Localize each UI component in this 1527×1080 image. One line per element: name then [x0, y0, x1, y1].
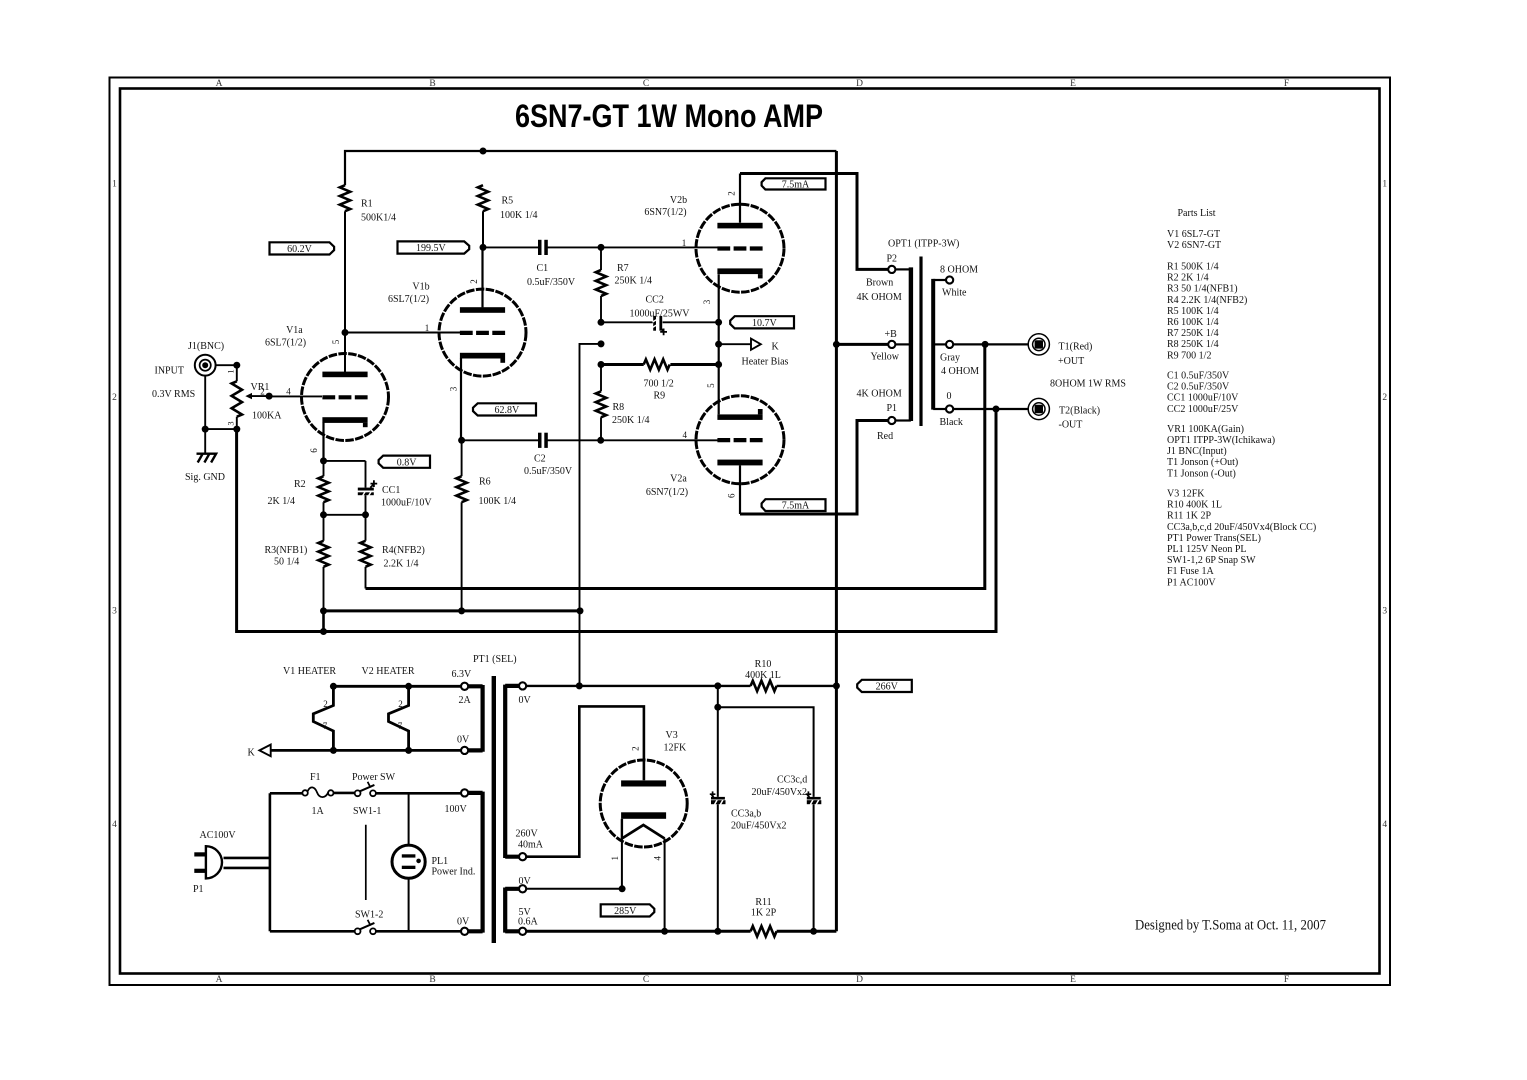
wire V1b plate lead: [481, 247, 483, 307]
potentiometer VR1: [232, 381, 252, 416]
svg-text:V1a: V1a: [286, 325, 303, 336]
wire CC3ab top lead: [717, 686, 719, 797]
svg-text:8 OHOM: 8 OHOM: [940, 264, 978, 275]
svg-text:1000uF/25WV: 1000uF/25WV: [630, 309, 691, 320]
svg-text:R10 400K 1L: R10 400K 1L: [1167, 500, 1222, 511]
svg-text:R2: R2: [294, 479, 306, 490]
tube V1a 6SL7 triode: [302, 354, 389, 441]
svg-text:R1: R1: [361, 199, 373, 210]
wire PL1 bottom lead: [408, 878, 410, 931]
svg-text:PT1 (SEL): PT1 (SEL): [473, 654, 517, 665]
node CC2 left: [598, 319, 605, 326]
wire heater top rail: [333, 685, 461, 688]
node V3 pin4 rail: [661, 928, 668, 935]
svg-text:PL1: PL1: [432, 856, 449, 867]
capacitor CC3a,b block: [710, 791, 726, 804]
svg-text:OPT1 (ITPP-3W): OPT1 (ITPP-3W): [888, 238, 959, 249]
svg-text:20uF/450Vx2: 20uF/450Vx2: [731, 821, 787, 832]
node CC3cd bottom: [810, 928, 817, 935]
svg-text:V2a: V2a: [670, 474, 687, 485]
svg-text:B: B: [429, 79, 435, 89]
node CC3ab top: [714, 682, 721, 689]
terminal 4 OHOM gray: [946, 341, 953, 348]
svg-text:199.5V: 199.5V: [416, 243, 447, 254]
svg-text:R8 250K 1/4: R8 250K 1/4: [1167, 339, 1219, 350]
svg-text:266V: 266V: [876, 682, 899, 693]
node heater V2 top: [405, 683, 412, 690]
wire black tap to T2: [953, 408, 1028, 410]
parts list: [1167, 208, 1316, 588]
wire V3 pin1 lead: [621, 839, 623, 889]
heater V2 filament: [389, 686, 409, 750]
node R7 top: [598, 244, 605, 251]
flag 62.8V: [473, 403, 536, 416]
tube V2a 6SN7 triode: [696, 396, 784, 484]
svg-text:R10: R10: [755, 659, 772, 670]
wire R3 top lead: [323, 515, 325, 541]
svg-text:CC3c,d: CC3c,d: [777, 774, 807, 785]
connector T2 output jack: [1028, 398, 1049, 419]
svg-text:J1(BNC): J1(BNC): [188, 341, 224, 352]
svg-text:1: 1: [1382, 180, 1387, 190]
wire plug cord upper: [224, 857, 270, 860]
node T1 branch: [982, 341, 989, 348]
wire BNC gnd to VR1 bottom: [205, 428, 237, 430]
node CC1 bottom: [362, 511, 369, 518]
svg-text:3: 3: [449, 386, 459, 391]
svg-text:0V: 0V: [457, 735, 470, 746]
node heater V1 top: [330, 683, 337, 690]
svg-text:6.3V: 6.3V: [452, 669, 473, 680]
svg-text:Red: Red: [877, 431, 893, 442]
wire V1a grid lead: [269, 395, 322, 397]
terminal rect 0V: [519, 885, 526, 892]
tube V3 12FK rectifier: [600, 760, 687, 847]
wire R9 right lead: [670, 363, 718, 366]
wire SW1-2 to 0V: [376, 930, 461, 933]
svg-text:0V: 0V: [457, 916, 470, 927]
node R3 upper bus: [320, 607, 327, 614]
svg-text:12FK: 12FK: [664, 743, 688, 754]
svg-text:260V: 260V: [516, 829, 539, 840]
node V2b cathode CC2: [715, 319, 722, 326]
terminal 6.3V: [461, 683, 468, 690]
svg-text:2: 2: [398, 699, 403, 709]
wire CC2 line right: [663, 321, 719, 323]
svg-text:500K1/4: 500K1/4: [361, 213, 396, 224]
svg-text:100KA: 100KA: [252, 411, 282, 422]
svg-text:250K 1/4: 250K 1/4: [615, 276, 653, 287]
svg-text:K: K: [772, 342, 780, 353]
node K arrow: [715, 341, 722, 348]
wire V2a grid lead: [601, 439, 718, 441]
wire K arrow stub: [719, 343, 751, 345]
svg-text:Gray: Gray: [940, 353, 960, 364]
flag 7.5mA bottom: [762, 499, 826, 512]
wire R3 node drop: [322, 611, 325, 632]
svg-text:60.2V: 60.2V: [287, 244, 313, 255]
svg-text:7.5mA: 7.5mA: [782, 501, 810, 512]
wire 0V rail right of R10: [777, 685, 837, 687]
connector K arrow heater return: [259, 745, 270, 757]
node 266V rail: [833, 682, 840, 689]
node input: [233, 362, 240, 369]
transformer OPT1 core: [919, 257, 922, 427]
svg-text:C1 0.5uF/350V: C1 0.5uF/350V: [1167, 371, 1230, 382]
ground Sig. GND: [197, 454, 217, 463]
svg-text:1A: 1A: [312, 806, 325, 817]
svg-text:Brown: Brown: [866, 277, 893, 288]
svg-text:V1 6SL7-GT: V1 6SL7-GT: [1167, 229, 1220, 240]
svg-text:E: E: [1070, 975, 1076, 985]
svg-text:Power Ind.: Power Ind.: [432, 866, 476, 877]
wire V2b anode lead: [739, 174, 741, 223]
transformer PT1 heater winding: [468, 685, 482, 752]
wire R3 bottom lead: [323, 567, 325, 611]
wire OPT1 0ohm stub: [933, 408, 946, 410]
wire R4 bottom lead: [365, 567, 367, 589]
wire rect 0V to V3 pin1: [526, 888, 622, 890]
svg-text:INPUT: INPUT: [155, 365, 184, 376]
svg-text:K: K: [248, 748, 256, 759]
wire R6 bottom lead: [461, 502, 463, 611]
svg-text:V3: V3: [666, 730, 678, 741]
node C2 right: [597, 437, 604, 444]
svg-text:20uF/450Vx2: 20uF/450Vx2: [752, 787, 808, 798]
wire PL1 top lead: [408, 793, 410, 845]
svg-text:Designed by T.Soma at Oct. 11,: Designed by T.Soma at Oct. 11, 2007: [1135, 918, 1326, 934]
wire CC3cd bottom lead: [813, 804, 815, 931]
node R2 bottom: [320, 511, 327, 518]
svg-text:A: A: [216, 79, 223, 89]
svg-text:1: 1: [682, 238, 687, 248]
node R5 top: [480, 148, 487, 155]
lamp PL1 neon: [392, 845, 425, 878]
svg-text:R5 100K 1/4: R5 100K 1/4: [1167, 306, 1219, 317]
wire OPT1 4ohm stub: [933, 343, 946, 345]
heater V1 filament: [313, 686, 333, 750]
connector J1 BNC input jack: [195, 355, 216, 376]
svg-text:R11 1K 2P: R11 1K 2P: [1167, 511, 1212, 522]
svg-text:100K 1/4: 100K 1/4: [479, 496, 517, 507]
svg-text:1: 1: [425, 323, 430, 333]
wire bottom rail left of R11: [526, 930, 750, 933]
node CC3ab bottom: [714, 928, 721, 935]
svg-text:0V: 0V: [519, 876, 532, 887]
wire R6 top lead: [461, 440, 463, 476]
terminal 8 OHOM: [946, 276, 953, 283]
svg-text:Sig. GND: Sig. GND: [185, 472, 225, 483]
capacitor CC1 1000uF electrolytic: [358, 480, 377, 495]
wire 260V to V3 anode: [526, 706, 644, 856]
svg-text:R6: R6: [479, 477, 491, 488]
transformer PT1 core: [492, 676, 496, 943]
svg-text:6: 6: [309, 448, 319, 453]
svg-text:7: 7: [323, 721, 328, 731]
wire OPT1 8ohm stub: [933, 279, 946, 281]
svg-text:R6 100K 1/4: R6 100K 1/4: [1167, 317, 1219, 328]
connector K arrow heater bias: [751, 339, 761, 350]
wire V2a cathode to OPT1 P1: [740, 421, 888, 515]
svg-text:C: C: [643, 79, 649, 89]
svg-text:C2 0.5uF/350V: C2 0.5uF/350V: [1167, 382, 1230, 393]
node heater V2 bottom: [405, 747, 412, 754]
wire R8 top lead: [600, 365, 602, 392]
svg-text:P2: P2: [887, 253, 898, 264]
resistor R8 250K: [596, 391, 606, 417]
svg-text:PL1 125V Neon PL: PL1 125V Neon PL: [1167, 544, 1247, 555]
terminal +B: [888, 341, 895, 348]
svg-text:V2b: V2b: [670, 195, 687, 206]
svg-text:F1: F1: [310, 772, 321, 783]
svg-text:CC3a,b,c,d 20uF/450Vx4(Block C: CC3a,b,c,d 20uF/450Vx4(Block CC): [1167, 522, 1316, 533]
wire R7 top lead: [600, 247, 602, 270]
svg-text:CC1: CC1: [382, 485, 400, 496]
svg-text:6SL7(1/2): 6SL7(1/2): [265, 337, 306, 348]
node VR1 bottom: [233, 426, 240, 433]
node V1a cathode: [320, 457, 327, 464]
wire CC1 to R2 bottom: [324, 514, 366, 516]
svg-text:2K 1/4: 2K 1/4: [268, 496, 296, 507]
capacitor CC2 1000uF electrolytic: [653, 316, 667, 335]
svg-text:4 OHOM: 4 OHOM: [941, 366, 979, 377]
svg-text:R2 2K 1/4: R2 2K 1/4: [1167, 273, 1209, 284]
svg-text:6SN7-GT 1W Mono AMP: 6SN7-GT 1W Mono AMP: [515, 98, 823, 134]
wire C2 line left: [462, 439, 539, 441]
svg-text:D: D: [856, 79, 863, 89]
svg-text:6SN7(1/2): 6SN7(1/2): [644, 207, 686, 218]
svg-text:F: F: [1284, 975, 1289, 985]
wire VR1 bottom lead: [236, 417, 238, 429]
terminal heater 0V: [461, 747, 468, 754]
wire B+ top rail: [345, 151, 836, 185]
svg-text:C1: C1: [537, 263, 549, 274]
svg-text:R9: R9: [654, 391, 666, 402]
wire B+ vertical drop: [835, 151, 838, 931]
wire upper ground bus: [324, 609, 581, 612]
wire 0V rail left of R10: [526, 685, 750, 687]
node V1a anode: [342, 329, 349, 336]
svg-text:E: E: [1070, 79, 1076, 89]
wire V1a anode to V1b grid: [345, 332, 460, 334]
resistor R4 NFB2 2.2K: [360, 541, 370, 567]
svg-text:40mA: 40mA: [518, 840, 544, 851]
node 0V rail K: [576, 682, 583, 689]
svg-text:0.8V: 0.8V: [397, 457, 418, 468]
svg-text:R3 50 1/4(NFB1): R3 50 1/4(NFB1): [1167, 284, 1238, 295]
wire CC1 bottom lead: [365, 495, 367, 515]
svg-text:R1 500K 1/4: R1 500K 1/4: [1167, 262, 1219, 273]
node CC3 link: [714, 704, 721, 711]
wire output return bus: [237, 409, 996, 632]
wire R1 bottom to V1a anode: [344, 211, 346, 373]
svg-text:F: F: [1284, 79, 1289, 89]
wire R8 bottom lead: [600, 417, 602, 440]
svg-text:400K 1L: 400K 1L: [745, 670, 781, 681]
terminal 0 black: [946, 405, 953, 412]
capacitor C2 0.5uF: [538, 433, 542, 448]
svg-text:R8: R8: [613, 402, 625, 413]
transformer OPT1 primary winding: [909, 267, 913, 421]
svg-text:4: 4: [683, 430, 688, 440]
tube V1b 6SL7 triode: [439, 289, 526, 376]
svg-text:4K OHOM: 4K OHOM: [857, 388, 902, 399]
svg-text:700 1/2: 700 1/2: [644, 379, 674, 390]
wire NFB feedback line: [366, 344, 985, 588]
wire OPT1 P1 stub: [895, 419, 911, 421]
svg-text:0V: 0V: [519, 695, 532, 706]
svg-text:SW1-1,2 6P Snap SW: SW1-1,2 6P Snap SW: [1167, 555, 1256, 566]
capacitor CC3c,d block: [806, 791, 822, 804]
resistor R6 100K: [456, 476, 466, 502]
svg-text:10.7V: 10.7V: [752, 318, 778, 329]
svg-text:Power SW: Power SW: [352, 772, 396, 783]
wire OPT1 +B stub: [895, 343, 911, 345]
svg-text:R7 250K 1/4: R7 250K 1/4: [1167, 328, 1219, 339]
resistor R2 2K: [318, 476, 328, 502]
wire AC left vertical: [269, 793, 272, 931]
resistor R10 400K: [751, 681, 777, 691]
resistor R9 700: [644, 359, 670, 369]
wire plug cord lower: [224, 867, 270, 870]
wire C2 line right: [547, 439, 600, 441]
node R9 right: [715, 361, 722, 368]
node C2 left: [458, 437, 465, 444]
svg-text:6SN7(1/2): 6SN7(1/2): [646, 487, 688, 498]
svg-text:+OUT: +OUT: [1058, 356, 1084, 367]
svg-text:0.5uF/350V: 0.5uF/350V: [524, 466, 573, 477]
node lower bus: [320, 628, 327, 635]
resistor R1 500K: [340, 185, 350, 211]
tube V2b 6SN7 triode: [696, 204, 784, 292]
plug P1 AC100V: [194, 846, 222, 878]
wire V2b anode to OPT1 P2: [740, 174, 888, 270]
svg-text:Yellow: Yellow: [871, 351, 900, 362]
terminal 5V: [519, 928, 526, 935]
resistor R7 250K: [596, 270, 606, 296]
connector T1 output jack: [1028, 334, 1049, 355]
wire bottom rail right of R11: [777, 930, 837, 933]
node V3 pin1 0V: [619, 885, 626, 892]
svg-text:V2 6SN7-GT: V2 6SN7-GT: [1167, 240, 1221, 251]
svg-text:0.3V RMS: 0.3V RMS: [152, 389, 195, 400]
svg-text:3: 3: [226, 421, 236, 425]
svg-text:4K OHOM: 4K OHOM: [857, 292, 902, 303]
switch SW1-2: [355, 920, 376, 934]
svg-text:1000uF/10V: 1000uF/10V: [381, 498, 432, 509]
svg-text:1: 1: [112, 180, 117, 190]
svg-text:-OUT: -OUT: [1059, 420, 1083, 431]
wire CC3ab bottom lead: [717, 804, 719, 931]
flag 7.5mA top: [762, 178, 826, 190]
svg-text:50 1/4: 50 1/4: [274, 557, 299, 568]
svg-text:1K 2P: 1K 2P: [751, 908, 777, 919]
svg-text:V3 12FK: V3 12FK: [1167, 489, 1205, 500]
transformer PT1 primary winding: [468, 792, 482, 933]
svg-text:T1 Jonson (-Out): T1 Jonson (-Out): [1167, 468, 1236, 479]
svg-text:4: 4: [653, 855, 663, 860]
svg-text:CC1 1000uF/10V: CC1 1000uF/10V: [1167, 393, 1239, 404]
svg-text:T1 Jonson (+Out): T1 Jonson (+Out): [1167, 457, 1238, 468]
wire V2a cathode lead: [739, 465, 741, 514]
flag 199.5V: [398, 241, 470, 254]
node R9 left: [598, 361, 605, 368]
svg-text:R7: R7: [617, 263, 629, 274]
flag 266V: [857, 680, 912, 693]
wire VR1 top lead: [236, 365, 238, 381]
svg-text:P1 AC100V: P1 AC100V: [1167, 577, 1216, 588]
svg-text:V2 HEATER: V2 HEATER: [362, 666, 415, 677]
svg-text:P1: P1: [193, 884, 204, 895]
svg-text:AC100V: AC100V: [200, 830, 237, 841]
wire AC top to fuse: [270, 792, 303, 795]
svg-text:100V: 100V: [445, 804, 468, 815]
svg-text:V1 HEATER: V1 HEATER: [283, 666, 336, 677]
wire gray tap to T1: [953, 343, 1028, 345]
svg-text:R11: R11: [755, 897, 771, 908]
svg-text:R4(NFB2): R4(NFB2): [382, 545, 425, 556]
wire V1a cathode lead: [322, 422, 324, 461]
svg-text:3: 3: [112, 607, 117, 617]
transformer PT1 rectifier winding: [505, 888, 519, 933]
switch link SW1: [365, 825, 367, 900]
svg-text:8OHOM 1W RMS: 8OHOM 1W RMS: [1050, 378, 1126, 389]
svg-text:R3(NFB1): R3(NFB1): [265, 545, 308, 556]
svg-text:R4 2.2K 1/4(NFB2): R4 2.2K 1/4(NFB2): [1167, 295, 1247, 306]
svg-text:7: 7: [398, 721, 403, 731]
svg-text:V1b: V1b: [412, 281, 429, 292]
wire R5 bottom lead: [482, 211, 484, 247]
svg-text:0.5uF/350V: 0.5uF/350V: [527, 277, 576, 288]
svg-text:2: 2: [631, 746, 641, 751]
wire SW1-1 to 100V: [376, 792, 461, 795]
wire CC3 node line: [718, 707, 814, 797]
svg-text:0: 0: [947, 391, 952, 402]
svg-text:White: White: [942, 287, 967, 298]
svg-text:B: B: [429, 975, 435, 985]
switch SW1-1: [355, 782, 376, 796]
svg-text:A: A: [216, 975, 223, 985]
wire heater bottom rail: [271, 749, 461, 752]
svg-text:2A: 2A: [459, 695, 472, 706]
svg-text:62.8V: 62.8V: [494, 405, 520, 416]
terminal P1: [888, 417, 895, 424]
node 199.5V: [480, 244, 487, 251]
svg-text:2: 2: [469, 279, 479, 284]
node bus drop: [577, 607, 584, 614]
terminal primary 0V: [461, 928, 468, 935]
wire BNC ground lead: [204, 376, 206, 454]
terminal 100V: [461, 789, 468, 796]
svg-text:285V: 285V: [614, 906, 637, 917]
svg-text:PT1 Power Trans(SEL): PT1 Power Trans(SEL): [1167, 533, 1261, 544]
svg-text:4: 4: [112, 820, 117, 830]
wire V3 pin4 lead: [664, 839, 666, 932]
wire V2b grid lead: [601, 246, 718, 248]
svg-text:4: 4: [286, 387, 291, 397]
wire fuse to SW1-1: [334, 792, 355, 795]
wire R2 top lead: [323, 461, 325, 476]
terminal 260V: [519, 853, 526, 860]
svg-text:5: 5: [706, 383, 716, 388]
svg-text:CC3a,b: CC3a,b: [731, 809, 761, 820]
svg-text:2: 2: [727, 191, 737, 196]
svg-text:D: D: [856, 975, 863, 985]
svg-text:F1 Fuse 1A: F1 Fuse 1A: [1167, 566, 1214, 577]
svg-text:5: 5: [331, 339, 341, 344]
node heater V1 bottom: [330, 747, 337, 754]
node BNC ground: [202, 426, 209, 433]
